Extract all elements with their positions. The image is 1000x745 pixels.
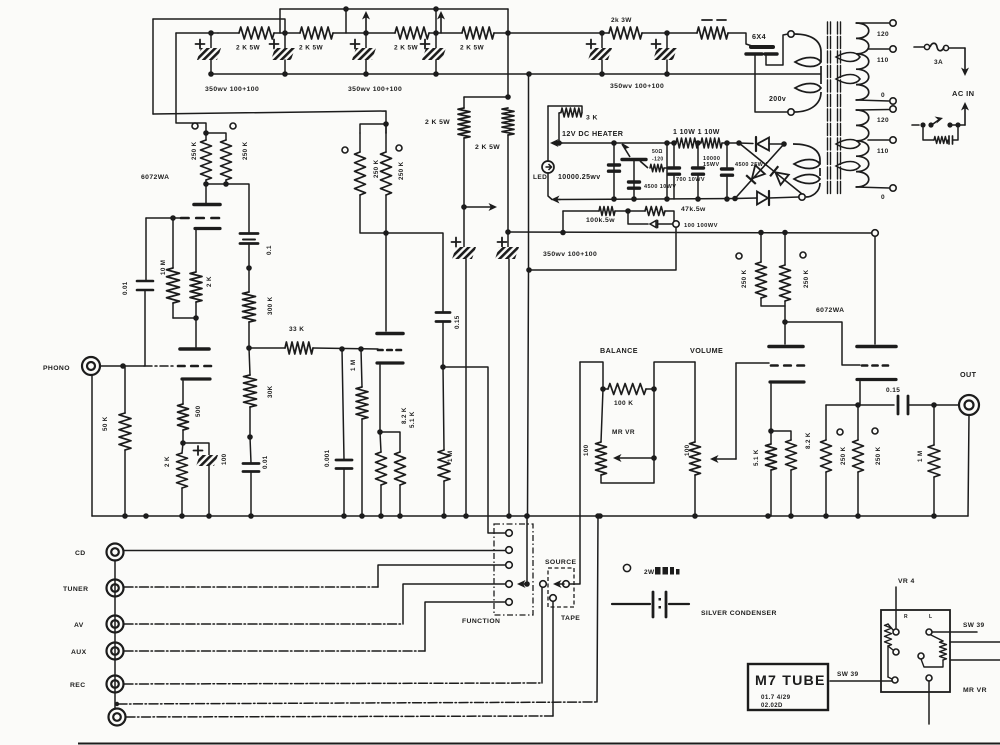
terminal — [893, 629, 899, 635]
capacitor 0.15 output — [860, 404, 894, 406]
capacitor 10000uF 25wv — [613, 143, 615, 199]
bridge diode on diagonal 2 — [746, 165, 765, 184]
triode V2 plate bar — [377, 332, 403, 336]
svg-text:350wv 100+100: 350wv 100+100 — [543, 251, 597, 258]
bridge rectifier diode bottom — [735, 197, 757, 200]
capacitor filter electrolytic #1 100uF — [208, 30, 214, 36]
svg-text:250 K: 250 K — [875, 446, 882, 465]
svg-text:VOLUME: VOLUME — [690, 346, 723, 355]
svg-text:0.1: 0.1 — [266, 245, 273, 255]
svg-text:100: 100 — [583, 444, 590, 456]
svg-text:10 M: 10 M — [160, 260, 167, 275]
svg-text:300 K: 300 K — [267, 296, 274, 315]
transformer primary lower winding — [856, 110, 869, 187]
resistor 2K 5W vertical right — [502, 108, 514, 135]
wire LED to heater minus rail — [548, 173, 552, 200]
arrow heater top rail — [555, 142, 562, 144]
switch FUNCTION contact 3 — [506, 562, 513, 569]
svg-text:4500 10WV: 4500 10WV — [644, 184, 676, 190]
input jack AV — [107, 616, 124, 633]
capacitor filter electrolytic #2 100uF — [282, 30, 288, 36]
switch SOURCE dashed box — [548, 568, 574, 607]
junction ground bus — [597, 513, 603, 519]
svg-text:50Ω: 50Ω — [652, 149, 663, 155]
terminal — [892, 677, 898, 683]
svg-text:0.001: 0.001 — [324, 449, 331, 467]
svg-text:0: 0 — [881, 92, 885, 99]
wire phono ground riser — [91, 375, 93, 516]
svg-text:110: 110 — [877, 148, 889, 155]
wire 10M join to cathode node — [173, 317, 196, 319]
resistor base 50ohm — [650, 164, 664, 172]
svg-text:0.01: 0.01 — [122, 281, 129, 295]
svg-text:5.1 K: 5.1 K — [409, 411, 416, 428]
wire B+ diagonal to 250K pair B — [153, 111, 386, 133]
switch FUNCTION contact 2 — [506, 547, 513, 554]
junction ground bus — [378, 513, 384, 519]
resistor 100K balance bridge — [608, 384, 646, 395]
potentiometer volume 100 — [694, 362, 696, 442]
resistor R4 2K 5W — [462, 27, 494, 39]
terminal heater winding bottom — [799, 194, 805, 200]
LED indicator — [547, 106, 549, 161]
input jack REC — [107, 676, 124, 693]
input jack TUNER — [107, 580, 124, 597]
terminal 120 lower top — [890, 106, 896, 112]
svg-text:47k.5w: 47k.5w — [681, 206, 706, 213]
svg-text:CD: CD — [75, 550, 86, 557]
svg-text:3 K: 3 K — [586, 115, 598, 122]
resistor 500 cathode — [178, 404, 189, 430]
svg-text:8.2 K: 8.2 K — [401, 407, 408, 424]
resistor 250K A-left — [205, 133, 207, 140]
svg-text:500: 500 — [195, 405, 202, 417]
wire line-amp B+ rail y232 — [508, 232, 872, 233]
bridge rectifier diagonal 2 — [735, 144, 784, 199]
resistor 33K interstage — [250, 347, 285, 349]
wire balance right riser — [654, 362, 695, 389]
svg-text:01.7 4/29: 01.7 4/29 — [761, 694, 791, 701]
wire second-node feed y19 — [153, 19, 285, 33]
svg-text:1 M: 1 M — [447, 450, 454, 462]
resistor 2K cathode V1a — [195, 230, 197, 272]
resistor 3K — [548, 106, 582, 112]
svg-text:AUX: AUX — [71, 649, 87, 656]
switch FUNCTION contact 1 — [506, 530, 513, 537]
wire balance wiper — [653, 389, 655, 458]
svg-text:120: 120 — [877, 117, 889, 124]
wire CD to selector — [124, 550, 505, 552]
wire bottom lead — [928, 681, 930, 724]
transistor pass regulator — [622, 144, 630, 157]
jack chain wire — [114, 560, 116, 709]
wire 6X4 cathode down to HV winding bottom — [755, 55, 788, 112]
junction ground bus — [397, 513, 403, 519]
svg-text:50 K: 50 K — [102, 416, 109, 431]
wire TUNER to selector — [124, 586, 378, 588]
capacitor 4500 25WV — [726, 143, 728, 167]
fuse 3A — [914, 46, 924, 48]
wire SW39 to M7 box — [830, 680, 892, 682]
svg-text:250 K: 250 K — [840, 446, 847, 465]
input jack CD — [107, 544, 124, 561]
svg-text:250 K: 250 K — [191, 141, 198, 160]
wire primary taps upper — [856, 22, 889, 24]
capacitor 0.15 coupling — [436, 311, 450, 314]
junction rec chain — [115, 702, 119, 706]
switch TAPE contact — [550, 595, 557, 602]
triode V2 cathode bar — [377, 361, 403, 364]
resistor 50K input load — [124, 366, 126, 413]
input jack PHONO — [82, 357, 100, 375]
wire bias loop down — [529, 228, 676, 271]
bridge diode on diagonal 1 — [770, 166, 789, 185]
wire AV to selector — [124, 623, 403, 625]
wire — [642, 32, 697, 34]
wire inner — [887, 646, 889, 677]
pin circle — [872, 428, 878, 434]
terminal 0 lower — [890, 185, 896, 191]
wire bus left drop — [279, 9, 281, 33]
wire V1b cathode — [182, 381, 184, 404]
svg-text:10000.25wv: 10000.25wv — [558, 174, 601, 181]
capacitor 100uF cathode bypass — [183, 443, 209, 455]
transformer core laminations — [827, 22, 829, 196]
wire long vertical x529 — [528, 74, 530, 270]
junction ground bus — [506, 513, 512, 519]
switch FUNCTION contact 5 — [506, 599, 513, 606]
bridge rectifier diagonal 1 — [739, 143, 802, 194]
svg-text:1 M: 1 M — [350, 359, 357, 371]
resistor 1M grid — [361, 349, 362, 387]
svg-text:0.01: 0.01 — [262, 455, 269, 469]
B+ arrow up at x366 — [365, 16, 367, 33]
capacitor decoupling electrolytic right 100uF — [498, 241, 507, 243]
wire to 6X4 plate — [728, 33, 752, 46]
resistor 250K D-right — [784, 233, 786, 266]
svg-text:5.1 K: 5.1 K — [753, 449, 760, 466]
junction ground bus — [441, 513, 447, 519]
switch SOURCE contact left — [540, 581, 547, 588]
terminal 0 upper — [890, 98, 896, 104]
svg-text:2 K 5W: 2 K 5W — [299, 45, 324, 52]
resistor 10M grid leak — [172, 218, 174, 268]
wire V3 cathode — [770, 384, 772, 431]
junction ground bus — [524, 513, 530, 519]
junction ground bus — [359, 513, 365, 519]
wire pair B bottoms — [360, 195, 386, 233]
pin circle — [736, 253, 742, 259]
triode V4 cathode bar — [857, 378, 896, 381]
B+ arrow up at x441 — [440, 16, 442, 33]
svg-text:0: 0 — [881, 194, 885, 201]
wire ground bus y74 — [211, 73, 820, 75]
pin circle — [396, 145, 402, 151]
svg-text:2 K 5W: 2 K 5W — [460, 45, 485, 52]
resistor 5.1K cathode line amp — [766, 444, 777, 470]
junction ground bus — [463, 513, 469, 519]
wire phono to V1b grid — [100, 365, 144, 367]
resistor 250K B-left — [359, 133, 361, 152]
capacitor filter electrolytic #6 100uF — [664, 30, 670, 36]
svg-text:100 K: 100 K — [614, 400, 633, 407]
svg-text:FUNCTION: FUNCTION — [462, 618, 500, 625]
triode V3 cathode bar — [770, 380, 804, 383]
triode V4 grid — [862, 364, 867, 367]
resistor R3 2K 5W — [395, 27, 429, 39]
resistor right element — [931, 635, 943, 641]
resistor R5 2k 3W — [609, 27, 642, 39]
switch FUNCTION dashed box — [494, 524, 533, 615]
capacitor 0.001 — [342, 349, 344, 459]
terminal 110 lower — [890, 137, 896, 143]
svg-text:100k.5w: 100k.5w — [586, 217, 615, 224]
wire volume wiper to V3 grid — [736, 362, 769, 364]
pin circle — [192, 123, 198, 129]
pin circle — [800, 252, 806, 258]
transformer HV secondary winding — [794, 34, 821, 62]
junction ground bus — [206, 513, 212, 519]
terminal — [918, 653, 924, 659]
wire riser to bus x346 — [345, 9, 347, 33]
terminal — [893, 649, 899, 655]
terminal bias tap — [673, 221, 679, 227]
wire to V4 plate — [874, 237, 876, 345]
capacitor filter electrolytic #4 100uF — [433, 30, 439, 36]
wire bracket 2K5W verticals — [463, 97, 465, 108]
resistor 30K — [249, 348, 250, 375]
plate resistor pair B 250K — [383, 121, 389, 127]
svg-text:250 K: 250 K — [803, 269, 810, 288]
wire heater bottom rail y199 — [558, 199, 738, 200]
svg-text:LED: LED — [533, 174, 547, 181]
wire wiper to ground bus — [526, 516, 528, 584]
rectifier 6X4 cathode bars — [746, 52, 762, 55]
svg-text:6072WA: 6072WA — [141, 174, 169, 181]
rectifier 6X4 plate bar — [751, 45, 773, 49]
wire 6X4 filament to HV winding top — [766, 34, 788, 65]
resistor 300K — [248, 268, 250, 292]
capacitor 10000 15WV — [697, 143, 699, 166]
svg-text:250 K: 250 K — [373, 159, 380, 178]
svg-text:2k 3W: 2k 3W — [611, 17, 632, 24]
wire NR lines — [950, 641, 1000, 643]
wire — [429, 32, 462, 34]
junction ground bus — [855, 513, 861, 519]
svg-text:200v: 200v — [769, 96, 786, 103]
svg-text:100: 100 — [684, 444, 691, 456]
capacitor 0.01 feedback — [250, 437, 251, 463]
svg-text:0.15: 0.15 — [886, 387, 900, 394]
svg-text:120: 120 — [877, 31, 889, 38]
capacitor 700 10WV — [673, 143, 675, 166]
capacitor 0.01 input — [145, 218, 147, 280]
svg-text:15WV: 15WV — [703, 162, 720, 168]
triode V1b cathode bar — [182, 377, 210, 380]
triode V3 grid — [771, 364, 778, 367]
junction ground bus — [341, 513, 347, 519]
wire heater top rail y143 — [558, 142, 676, 144]
svg-text:6072WA: 6072WA — [816, 307, 844, 314]
input jack AUX — [107, 643, 124, 660]
triode V1a grid — [181, 217, 189, 220]
wire bus right drop x508 — [507, 9, 509, 33]
svg-text:SILVER CONDENSER: SILVER CONDENSER — [701, 610, 777, 617]
svg-text:AC IN: AC IN — [952, 89, 974, 98]
svg-text:MR VR: MR VR — [612, 429, 635, 436]
wire to V2 plate — [385, 233, 387, 331]
plate resistor pair A 250K feed — [203, 130, 209, 136]
triode V4 plate bar — [857, 345, 896, 349]
triode V1a cathode bar — [195, 227, 220, 230]
svg-text:350wv 100+100: 350wv 100+100 — [205, 86, 259, 93]
capacitor filter electrolytic #5 100uF — [599, 30, 605, 36]
wire y33 right section — [508, 32, 609, 34]
svg-text:12V DC HEATER: 12V DC HEATER — [562, 129, 624, 138]
svg-text:33 K: 33 K — [289, 326, 304, 333]
junction ground bus — [248, 513, 254, 519]
wire first-node feed x176 — [176, 33, 206, 133]
wire primary taps lower — [856, 109, 889, 112]
svg-text:6X4: 6X4 — [752, 32, 766, 41]
svg-text:-120: -120 — [652, 157, 664, 163]
bridge rectifier diode top — [736, 140, 742, 146]
svg-text:30K: 30K — [267, 385, 274, 398]
wire tape play to switch — [126, 716, 553, 717]
junction ground bus — [765, 513, 771, 519]
wire out jack ground — [968, 415, 969, 516]
terminal right pole — [926, 629, 932, 635]
wire to V3 plate — [784, 322, 786, 344]
svg-text:SW 39: SW 39 — [837, 671, 859, 678]
arrow AC IN up — [964, 107, 966, 125]
junction ground bus — [823, 513, 829, 519]
svg-text:OUT: OUT — [960, 370, 977, 379]
wire — [274, 32, 300, 34]
resistor 47k 5w — [645, 207, 665, 216]
wire down to V1b plate — [195, 318, 197, 347]
svg-text:250 K: 250 K — [242, 141, 249, 160]
volume wiper arrow — [735, 363, 737, 459]
svg-text:MR VR: MR VR — [963, 687, 987, 694]
svg-text:250 K: 250 K — [398, 161, 405, 180]
potentiometer balance 100 — [601, 389, 603, 442]
capacitor 4500 10WV — [633, 161, 635, 199]
wire plate node to 0.1 coupling cap — [226, 184, 249, 232]
wire right dropper down — [507, 135, 509, 232]
wire SW39 right — [933, 631, 978, 633]
transformer heater winding (lower left) — [793, 144, 820, 164]
wire — [366, 32, 395, 34]
resistor 1M output load — [443, 367, 444, 450]
svg-text:2 K 5W: 2 K 5W — [475, 144, 500, 151]
resistor 8.2K cathode — [376, 452, 387, 485]
svg-text:02.02D: 02.02D — [761, 703, 783, 709]
resistor 250K output right — [857, 405, 859, 440]
svg-text:REC: REC — [70, 682, 86, 689]
resistor 100k 5w — [562, 211, 564, 233]
wire main ground bus — [92, 515, 968, 517]
triode V1b grid — [178, 365, 185, 368]
terminal HV winding bottom — [788, 109, 794, 115]
input jack TAPE PLAY — [109, 709, 126, 726]
capacitor filter electrolytic #3 100uF — [363, 30, 369, 36]
resistor 250K B-right — [385, 133, 387, 152]
arrow heater bottom rail — [556, 199, 560, 201]
resistor 2K lower — [177, 453, 188, 488]
switch FUNCTION contact 4 — [506, 581, 513, 588]
svg-text:2 K: 2 K — [206, 276, 213, 287]
svg-text:8.2 K: 8.2 K — [805, 432, 812, 449]
svg-text:110: 110 — [877, 57, 889, 64]
legend silver condenser symbol — [612, 603, 650, 605]
triode V1a plate bar — [194, 203, 220, 207]
junction ground bus — [179, 513, 185, 519]
triode V1b plate bar — [180, 347, 209, 351]
resistor 1ohm 10W #1 — [676, 138, 698, 148]
wire left B+ riser x153 — [152, 19, 154, 114]
capacitor 100 100WV with diode mark — [628, 211, 648, 224]
svg-text:TUNER: TUNER — [63, 586, 88, 593]
svg-text:100: 100 — [221, 453, 228, 465]
wire V1a grid network — [146, 217, 180, 219]
svg-text:AV: AV — [74, 622, 84, 629]
svg-text:TAPE: TAPE — [561, 615, 580, 622]
resistor 1M output — [933, 405, 935, 445]
svg-text:L: L — [929, 614, 932, 620]
triode V3 plate bar — [769, 345, 803, 349]
terminal HV winding top — [788, 31, 794, 37]
switch FUNCTION wiper arrow — [524, 581, 530, 587]
pin circle — [342, 147, 348, 153]
wire filter node row y33 — [176, 32, 218, 34]
capacitor decoupling electrolytic left 100uF — [452, 241, 461, 243]
svg-text:350wv 100+100: 350wv 100+100 — [610, 83, 664, 90]
resistor 5.1K cathode — [380, 432, 400, 452]
wire source wiper riser to balance — [569, 362, 580, 584]
triode V2 grid — [378, 349, 383, 352]
svg-text:1 M: 1 M — [917, 450, 924, 462]
wire VR4 lead — [895, 587, 897, 628]
terminal 120 upper — [890, 20, 896, 26]
wire left dropper down to node — [463, 138, 465, 207]
resistor R6 (faded label) — [697, 27, 728, 39]
resistor R1 2K 5W — [218, 32, 239, 34]
arrow AC IN down — [964, 48, 966, 71]
svg-text:R: R — [904, 614, 908, 620]
svg-text:VR 4: VR 4 — [898, 578, 915, 585]
svg-text:2 K 5W: 2 K 5W — [394, 45, 419, 52]
svg-text:3A: 3A — [934, 59, 943, 66]
terminal line B+ feed — [872, 230, 879, 237]
wire AUX to selector — [124, 650, 425, 652]
wire to OUT jack — [934, 404, 958, 406]
plate resistor pair D 250K — [758, 230, 764, 236]
terminal 110 upper — [890, 46, 896, 52]
svg-text:2W: 2W — [644, 569, 655, 576]
wire pair A bottoms to plate — [205, 180, 207, 203]
detail box VR/SW — [881, 610, 950, 692]
resistor R2 2K 5W — [300, 27, 333, 39]
wire output to selector — [443, 367, 505, 533]
junction ground bus — [931, 513, 937, 519]
junction ground bus — [122, 513, 128, 519]
junction ground bus — [143, 513, 149, 519]
pin circle — [837, 429, 843, 435]
junction ground bus — [788, 513, 794, 519]
title box M7 TUBE — [748, 664, 828, 710]
snubber RC across switch — [923, 128, 934, 140]
